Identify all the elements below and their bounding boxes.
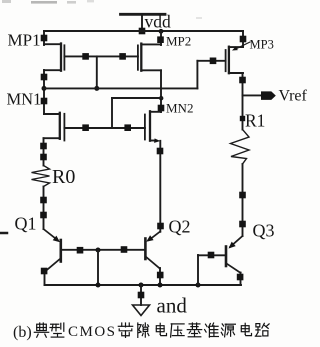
transistor Q1 emitter arrowhead (53, 236, 60, 243)
电 (second) (241, 323, 251, 335)
svg-text:vdd: vdd (145, 12, 172, 32)
wire Q3 base drop x198 (197, 255, 199, 285)
典 (34, 323, 48, 337)
wire MP3 source vertical from rail (242, 31, 244, 47)
wire Vref lead (243, 94, 263, 96)
wire MP1 source lead (44, 43, 61, 45)
transistor Q2 base bar (144, 239, 147, 260)
wire Q3 collector vertical (240, 273, 242, 286)
svg-text:Q1: Q1 (15, 214, 37, 234)
svg-text:and: and (157, 294, 188, 318)
svg-text:Q2: Q2 (169, 217, 191, 237)
node MN gate / MP2 drain T (round dot) (159, 96, 163, 100)
wire MP1 drain lead (44, 69, 61, 71)
transistor Q2 emitter arrowhead (146, 235, 153, 242)
node rail Q2 collector (round dot) (158, 283, 163, 288)
node bias wire junction (round dot) (94, 86, 99, 91)
svg-text:MP1: MP1 (8, 31, 41, 50)
junction square gate bus right (119, 53, 126, 60)
wire MN1 source vertical to R0 (43, 138, 45, 165)
transistor Q2 collector diagonal (146, 257, 160, 269)
junction square ground stem (138, 292, 145, 299)
cropped dash left edge (0, 232, 7, 235)
路 (255, 323, 269, 336)
transistor MN1 gate bar (63, 114, 65, 141)
wire MN2 source lead (150, 140, 156, 142)
junction square Q1 collector (41, 268, 48, 275)
transistor MN2 channel bar (149, 111, 151, 140)
transistor MN2 gate bar (144, 115, 146, 140)
wire NMOS gate drop x112 (111, 98, 113, 128)
junction square above R0 a (40, 143, 47, 150)
wire MN2 drain lead (150, 111, 161, 113)
transistor Q1 base bar (59, 240, 62, 262)
准 (205, 323, 219, 337)
transistor MN1 channel bar (59, 113, 61, 139)
wire R0 to Q1 emitter (43, 187, 45, 230)
junction square MP2 source (157, 36, 164, 43)
wire MP2 drain vertical to MN2 drain (160, 70, 162, 112)
transistor MP3 channel bar (228, 47, 230, 73)
MP3 callout arrowhead (232, 46, 238, 50)
junction square MP3 source (240, 36, 247, 43)
transistor MP1 gate bar (63, 45, 65, 69)
基 (187, 323, 201, 337)
隙 (138, 323, 149, 337)
resistor R1 (231, 130, 250, 165)
node MP1 drain / bias (round dot) (42, 86, 47, 91)
caption text (13, 324, 117, 341)
wire base bus y250 Q1-Q2 (62, 249, 146, 251)
MP3 callout arrow line (235, 42, 250, 49)
node R1 top (small square) (240, 116, 245, 121)
junction square Q3 emitter (239, 221, 246, 228)
svg-text:(b): (b) (13, 324, 32, 341)
transistor MP2 channel bar (140, 44, 142, 71)
wire MN1 drain lead (44, 113, 60, 115)
Vref arrow (261, 91, 276, 100)
wire gate bus drop x96 (96, 56, 98, 88)
junction square Q2 emitter (157, 223, 164, 230)
svg-text:MP2: MP2 (166, 34, 191, 49)
junction square MN1 drain (41, 98, 48, 105)
wire MN1 source lead (44, 137, 60, 139)
node base bus drop (round dot) (96, 248, 101, 253)
wire NMOS diode link y98 (112, 97, 161, 99)
svg-text:Q3: Q3 (253, 221, 275, 241)
wire MP2 drain lead (141, 69, 161, 71)
wire bias bus y89 to MP3 gate (44, 87, 197, 89)
wire MP3 source lead (229, 46, 243, 48)
transistor MP1 channel bar (60, 44, 62, 71)
wire MP3 gate drop x197 (196, 61, 198, 89)
junction square below R0 a (40, 197, 47, 204)
resistor R0 (32, 166, 50, 187)
transistor MP3 gate bar (225, 50, 227, 71)
wire Q3 base lead (198, 254, 226, 256)
wire MP3 drain vertical to R1 (242, 73, 244, 130)
transistor Q1 collector diagonal (45, 258, 61, 271)
junction square vdd stem (139, 28, 146, 35)
transistor Q3 base bar (225, 247, 228, 267)
junction square base bus left (77, 247, 84, 254)
node rail Q3 base (round dot) (196, 283, 201, 288)
transistor MN2 source arrowhead (154, 138, 160, 143)
wire MN2 source vertical to Q2 (159, 141, 161, 232)
svg-text:CMOS: CMOS (68, 324, 117, 340)
电 (156, 323, 166, 335)
wire MP2 source vertical (160, 31, 162, 45)
junction square base bus right (121, 246, 128, 253)
wire R1 to Q3 emitter (242, 164, 244, 236)
caption CJK glyphs (34, 323, 269, 337)
wire MP2 source lead (141, 43, 161, 45)
源 (221, 324, 235, 337)
带 (118, 323, 132, 337)
junction square MN2 source (157, 148, 164, 155)
svg-text:MN2: MN2 (166, 101, 193, 116)
junction square MP1 source (41, 35, 48, 42)
vdd stem wire (141, 14, 143, 31)
node MP2 source on rail (round dot) (159, 29, 164, 34)
junction square MP3 drain (239, 77, 246, 84)
wire Q1 collector vertical (44, 272, 46, 286)
junction square below R0 b (40, 212, 47, 219)
vdd power symbol bar (121, 13, 166, 16)
svg-text:R0: R0 (52, 166, 75, 188)
svg-text:MN1: MN1 (7, 90, 42, 109)
junction square Q3 collector (237, 274, 244, 281)
wire ground rail (45, 284, 242, 286)
transistor MP2 gate bar (137, 45, 139, 69)
wire MP1 drain vertical (43, 70, 45, 114)
junction square NMOS gate bus right (124, 124, 131, 131)
wire NMOS gate bus y128 (64, 127, 144, 129)
junction square Q3 base (208, 252, 215, 259)
wire MP3 gate lead (197, 60, 225, 62)
junction square Q2 collector (157, 272, 164, 279)
junction square MP2/MN2 drain (158, 105, 165, 112)
junction square above R0 b (40, 154, 47, 161)
wire ground stem (140, 285, 142, 305)
ground symbol triangle (133, 305, 150, 316)
transistor Q3 collector diagonal (226, 263, 240, 273)
junction square gate bus left (82, 53, 89, 60)
node rail ground stem (round dot) (139, 283, 144, 288)
svg-text:MP3: MP3 (250, 38, 274, 52)
junction square NMOS gate bus left (82, 124, 89, 131)
压 (171, 324, 185, 337)
型 (50, 323, 64, 337)
transistor Q1 emitter diagonal (44, 229, 58, 240)
node rail x98 (round dot) (96, 283, 101, 288)
wire Q2 collector vertical (159, 268, 161, 285)
transistor Q2 emitter diagonal (149, 232, 160, 241)
wire base bus to ground rail x98 (97, 250, 99, 285)
junction square MP1 drain (41, 74, 48, 81)
wire PMOS gate bus y57 (64, 55, 137, 57)
svg-text:Vref: Vref (279, 87, 308, 104)
cropped text remnants top edge (2, 0, 202, 19)
junction square MP3 gate (210, 58, 217, 65)
junction square below R1 (239, 192, 246, 199)
transistor Q3 emitter arrowhead (229, 242, 236, 249)
wire vdd rail (44, 30, 243, 32)
wire MP1 source vertical (43, 31, 45, 45)
wire MP3 drain lead (229, 72, 243, 74)
transistor Q3 emitter diagonal (230, 236, 243, 247)
svg-text:R1: R1 (245, 111, 265, 131)
